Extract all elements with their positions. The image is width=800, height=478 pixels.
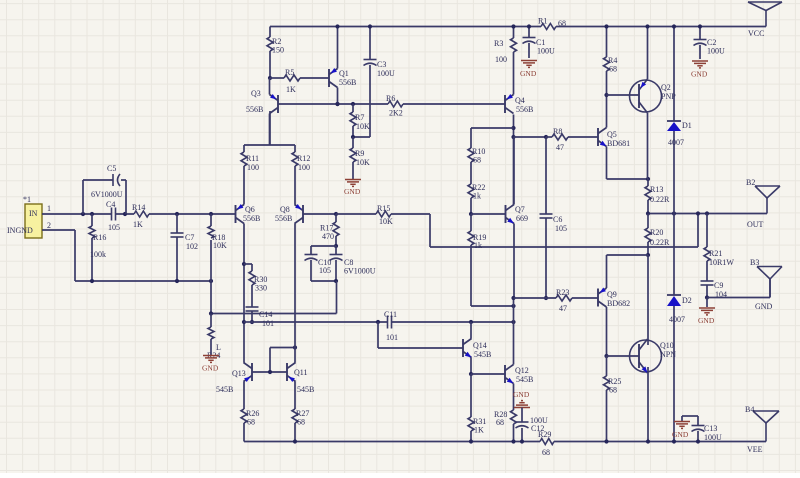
- svg-text:Q4: Q4: [515, 96, 525, 105]
- svg-text:101: 101: [386, 333, 398, 342]
- resistor R17: [320, 214, 339, 248]
- wire Q10 base: [607, 355, 640, 357]
- capacitor C14: [246, 307, 275, 328]
- svg-text:*1: *1: [23, 195, 31, 204]
- resistor R9: [350, 137, 370, 179]
- svg-text:100: 100: [298, 163, 310, 172]
- svg-text:68: 68: [609, 65, 617, 74]
- svg-text:R16: R16: [93, 233, 106, 242]
- wire INGND return: [42, 230, 213, 283]
- wire feedback: [430, 214, 698, 248]
- svg-text:GND: GND: [672, 430, 689, 439]
- wire VEE bottom rail: [244, 441, 766, 443]
- resistor R14: [132, 203, 149, 229]
- svg-text:VCC: VCC: [748, 29, 764, 38]
- svg-text:Q7: Q7: [515, 205, 525, 214]
- capacitor C13: [682, 416, 722, 444]
- svg-text:Q2: Q2: [661, 83, 671, 92]
- transistor Q8: [275, 204, 338, 224]
- svg-text:C6: C6: [553, 215, 562, 224]
- wire mirror bases: [252, 345, 297, 374]
- svg-text:C3: C3: [377, 60, 386, 69]
- svg-text:545B: 545B: [474, 350, 491, 359]
- wire bias line y104: [278, 102, 505, 106]
- wire Q9 base stub: [597, 297, 599, 299]
- capacitor C3: [364, 24, 396, 137]
- svg-text:GND: GND: [344, 187, 361, 196]
- svg-text:R11: R11: [246, 154, 259, 163]
- svg-text:Q10: Q10: [660, 341, 674, 350]
- wire Q2 base: [607, 94, 640, 96]
- resistor R10: [468, 128, 485, 184]
- resistor R25: [604, 356, 622, 444]
- svg-text:R1: R1: [538, 17, 547, 26]
- svg-text:68: 68: [496, 418, 504, 427]
- svg-text:R9: R9: [355, 149, 364, 158]
- power symbol B3 GND: [750, 258, 782, 311]
- wire C8 bottom to gnd bus: [336, 281, 338, 314]
- capacitor C9: [701, 281, 728, 300]
- svg-text:10K: 10K: [213, 241, 227, 250]
- resistor R26: [241, 382, 259, 442]
- svg-text:B3: B3: [750, 258, 759, 267]
- svg-text:100U: 100U: [377, 69, 395, 78]
- svg-text:1: 1: [47, 204, 51, 213]
- svg-text:68: 68: [558, 19, 566, 28]
- power symbol B2 OUT: [746, 178, 780, 229]
- svg-text:IN: IN: [29, 209, 38, 218]
- capacitor C7: [171, 214, 199, 281]
- svg-text:68: 68: [247, 418, 255, 427]
- transistor Q1: [329, 24, 356, 106]
- transistor Q14: [463, 322, 491, 376]
- svg-text:Q5: Q5: [607, 130, 617, 139]
- svg-text:10R1W: 10R1W: [709, 258, 734, 267]
- transistor Q2: [630, 24, 677, 179]
- svg-text:100U: 100U: [707, 47, 725, 56]
- svg-text:OUT: OUT: [747, 220, 764, 229]
- svg-text:C7: C7: [185, 233, 194, 242]
- wire y322 line: [244, 320, 516, 324]
- svg-text:Q8: Q8: [280, 205, 290, 214]
- capacitor C2: [694, 24, 726, 59]
- wire B3 leg: [707, 279, 770, 298]
- wire Q9 collector column: [604, 307, 608, 358]
- svg-text:100k: 100k: [90, 250, 106, 259]
- wire Q8 collector column: [294, 224, 296, 363]
- svg-text:Q6: Q6: [245, 205, 255, 214]
- capacitor C12: [516, 408, 549, 444]
- wire OUT line: [646, 211, 767, 215]
- svg-text:Q12: Q12: [515, 366, 529, 375]
- svg-text:C4: C4: [106, 200, 115, 209]
- svg-text:C9: C9: [714, 281, 723, 290]
- ground GND (C12) inverted: [513, 390, 530, 408]
- svg-text:Q13: Q13: [232, 369, 246, 378]
- svg-text:Q11: Q11: [294, 368, 307, 377]
- resistor R12: [292, 145, 310, 205]
- capacitor C1: [523, 24, 556, 58]
- svg-text:GND: GND: [755, 302, 773, 311]
- resistor R22: [468, 183, 485, 216]
- svg-text:C14: C14: [259, 310, 272, 319]
- svg-text:1K: 1K: [133, 220, 143, 229]
- svg-text:R15: R15: [377, 204, 390, 213]
- resistor R31: [468, 374, 486, 444]
- svg-text:100: 100: [247, 163, 259, 172]
- resistor R23: [556, 288, 572, 313]
- resistor R18: [208, 214, 227, 281]
- svg-text:1K: 1K: [286, 85, 296, 94]
- wire Q7 base: [471, 213, 506, 215]
- resistor R19: [468, 214, 486, 306]
- ground GND (C2): [691, 61, 708, 79]
- svg-text:R13: R13: [650, 185, 663, 194]
- svg-text:545B: 545B: [516, 375, 533, 384]
- resistor R2: [267, 27, 284, 79]
- svg-text:GND: GND: [698, 316, 715, 325]
- svg-text:669: 669: [516, 214, 528, 223]
- node R2/R5: [268, 76, 272, 80]
- svg-text:2K2: 2K2: [389, 109, 403, 118]
- wire Vbe row y137: [514, 135, 553, 139]
- svg-text:B4: B4: [745, 405, 754, 414]
- svg-text:GND: GND: [520, 69, 537, 78]
- diode D1: [667, 24, 692, 213]
- svg-text:47: 47: [559, 304, 567, 313]
- diode D2: [667, 214, 692, 444]
- svg-text:0.22R: 0.22R: [650, 238, 670, 247]
- svg-text:68: 68: [473, 156, 481, 165]
- wire Q9 emitter leg: [607, 255, 649, 288]
- svg-text:556B: 556B: [275, 214, 292, 223]
- resistor R6: [386, 94, 403, 118]
- svg-text:556B: 556B: [243, 214, 260, 223]
- ground GND (C9): [698, 298, 715, 326]
- svg-text:R21: R21: [709, 249, 722, 258]
- resistor R21: [704, 214, 734, 281]
- svg-text:D2: D2: [682, 296, 692, 305]
- svg-text:C5: C5: [107, 164, 116, 173]
- resistor R11: [241, 145, 259, 205]
- capacitor C4: [106, 200, 120, 232]
- svg-text:B2: B2: [746, 178, 755, 187]
- resistor R16: [89, 214, 106, 281]
- svg-text:47: 47: [556, 143, 564, 152]
- connector *1 IN/INGND: [7, 195, 51, 238]
- svg-text:GND: GND: [202, 364, 219, 373]
- svg-text:GND: GND: [691, 70, 708, 79]
- svg-text:10K: 10K: [379, 217, 393, 226]
- transistor Q12: [505, 322, 533, 410]
- wire Q4 collector column: [511, 115, 515, 205]
- svg-text:102: 102: [186, 242, 198, 251]
- svg-text:R3: R3: [494, 39, 503, 48]
- svg-text:C12: C12: [531, 424, 544, 433]
- wire y298 line: [514, 297, 599, 299]
- resistor R8: [546, 127, 598, 152]
- wire to R10 branch: [471, 127, 514, 129]
- ground GND (R9): [344, 180, 361, 197]
- transistor Q5: [598, 93, 650, 181]
- svg-text:10K: 10K: [356, 122, 370, 131]
- transistor Q11: [287, 363, 314, 395]
- capacitor C6: [540, 137, 568, 300]
- wire tail split: [244, 111, 295, 145]
- svg-text:105: 105: [319, 266, 331, 275]
- svg-text:D1: D1: [682, 121, 692, 130]
- svg-text:R7: R7: [355, 113, 364, 122]
- svg-text:4007: 4007: [669, 315, 685, 324]
- resistor R24: [207, 314, 221, 361]
- transistor Q6: [236, 204, 261, 224]
- resistor R7: [350, 104, 370, 137]
- svg-text:100U: 100U: [537, 47, 555, 56]
- capacitor C11: [384, 310, 398, 342]
- svg-text:R5: R5: [285, 68, 294, 77]
- transistor Q7: [506, 137, 529, 224]
- wire R7 bottom to C3: [351, 135, 370, 139]
- svg-text:545B: 545B: [297, 385, 314, 394]
- wire input net (pin1 to Q6 base): [42, 212, 236, 216]
- svg-text:105: 105: [555, 224, 567, 233]
- ground GND (C13): [672, 422, 690, 440]
- svg-text:R6: R6: [386, 94, 395, 103]
- svg-text:BD681: BD681: [607, 139, 630, 148]
- svg-text:470: 470: [322, 232, 334, 241]
- svg-text:BD682: BD682: [607, 299, 630, 308]
- svg-text:R12: R12: [297, 154, 310, 163]
- resistor R4: [604, 24, 618, 95]
- resistor R28: [494, 410, 517, 444]
- svg-text:Q1: Q1: [339, 69, 349, 78]
- resistor R1: [538, 17, 566, 30]
- resistor R27: [292, 382, 309, 444]
- svg-text:INGND: INGND: [7, 226, 33, 235]
- svg-text:330: 330: [255, 284, 267, 293]
- svg-text:R20: R20: [650, 228, 663, 237]
- svg-text:150: 150: [272, 46, 284, 55]
- resistor R29: [538, 430, 554, 457]
- resistor R5: [270, 68, 329, 94]
- ground GND (R24): [202, 356, 219, 373]
- svg-text:1k: 1k: [474, 241, 482, 250]
- svg-text:100: 100: [495, 55, 507, 64]
- wire R19 elbow: [471, 304, 516, 308]
- capacitor C5 bypass loop: [83, 164, 126, 214]
- transistor Q4: [505, 94, 533, 114]
- wire VCC top rail: [270, 26, 766, 28]
- svg-text:0.22R: 0.22R: [650, 195, 670, 204]
- wire Q7 emitter column: [511, 224, 515, 323]
- svg-text:100U: 100U: [704, 433, 722, 442]
- power symbol VEE (B4): [745, 405, 779, 454]
- svg-text:2: 2: [47, 221, 51, 230]
- svg-text:GND: GND: [513, 390, 530, 399]
- svg-text:R14: R14: [132, 203, 145, 212]
- svg-text:68: 68: [297, 418, 305, 427]
- svg-text:Q14: Q14: [473, 341, 487, 350]
- resistor R30: [244, 264, 267, 307]
- wire gnd bus mid: [209, 281, 337, 316]
- transistor Q13: [216, 363, 252, 395]
- svg-text:68: 68: [542, 448, 550, 457]
- svg-text:105: 105: [108, 223, 120, 232]
- svg-text:556B: 556B: [339, 78, 356, 87]
- svg-text:6V1000U: 6V1000U: [344, 267, 376, 276]
- capacitor C8: [330, 246, 376, 283]
- capacitor C10: [305, 246, 337, 281]
- svg-text:4007: 4007: [668, 138, 684, 147]
- transistor Q9: [598, 288, 630, 309]
- svg-text:6V1000U: 6V1000U: [91, 190, 123, 199]
- svg-text:Q3: Q3: [251, 89, 261, 98]
- resistor R15: [336, 204, 430, 226]
- svg-text:556B: 556B: [246, 105, 263, 114]
- svg-text:1K: 1K: [474, 426, 484, 435]
- svg-text:556B: 556B: [516, 105, 533, 114]
- wire Q12 base: [471, 373, 505, 375]
- ground GND (C1): [520, 61, 537, 79]
- svg-text:VEE: VEE: [747, 445, 763, 454]
- svg-text:C11: C11: [384, 310, 397, 319]
- wire Q6 collector column: [242, 224, 246, 363]
- transistor Q10: [630, 255, 677, 444]
- svg-text:Q9: Q9: [607, 290, 617, 299]
- wire Q14 base leg: [378, 322, 463, 348]
- transistor Q3: [246, 78, 278, 145]
- svg-text:68: 68: [609, 386, 617, 395]
- svg-text:R8: R8: [553, 127, 562, 136]
- svg-text:545B: 545B: [216, 385, 233, 394]
- power symbol VCC (B1): [748, 2, 782, 38]
- resistor R13: [645, 179, 670, 214]
- resistor R20: [645, 214, 670, 258]
- svg-text:C13: C13: [704, 424, 717, 433]
- svg-text:1k: 1k: [473, 192, 481, 201]
- svg-text:R23: R23: [556, 288, 569, 297]
- resistor R3: [494, 24, 517, 94]
- svg-text:101: 101: [262, 319, 274, 328]
- svg-text:10K: 10K: [356, 158, 370, 167]
